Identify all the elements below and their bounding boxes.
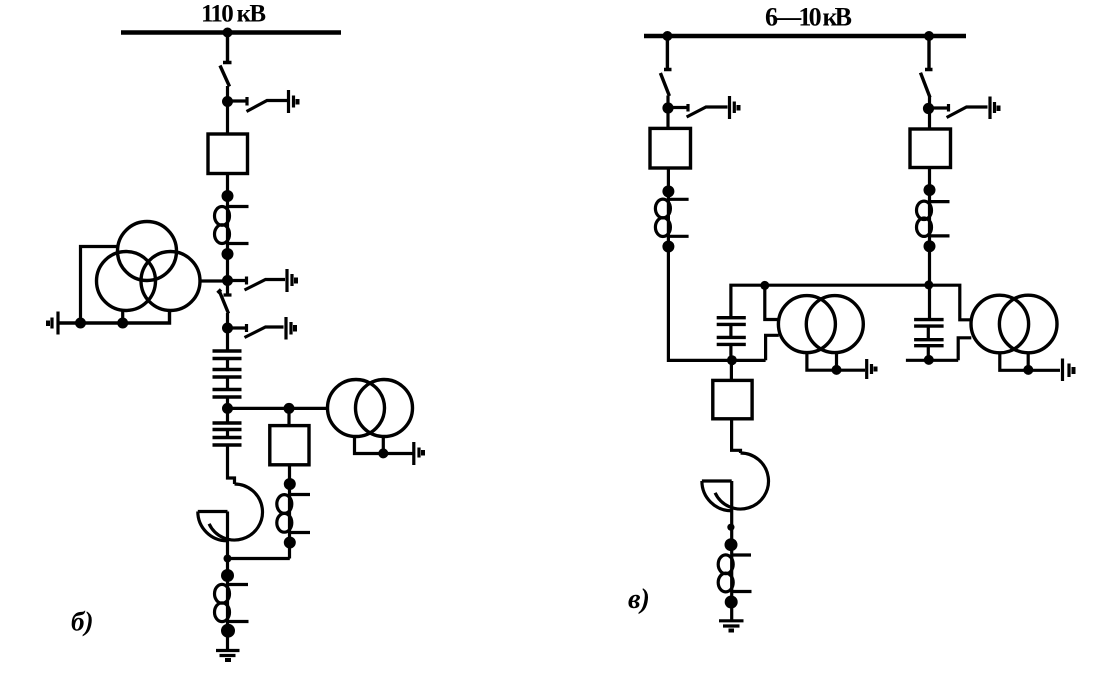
current transformer TA6 taps — [731, 555, 751, 592]
ground main earth — [216, 651, 240, 656]
wire TV2 bottom left lead — [355, 437, 413, 454]
current transformer TA3 winding 2 — [215, 603, 230, 622]
ground main earth small bar — [225, 658, 231, 662]
coupling filter box Z2 — [713, 380, 752, 418]
disconnector QS4 blade — [921, 73, 931, 98]
node bottom of CT TA1 — [222, 248, 234, 260]
earthing switch QSG5 blade — [947, 107, 988, 118]
node above CT TA3 — [221, 569, 234, 582]
earthing switch QSG1 blade — [247, 101, 288, 112]
node TV1 ground junction 1 — [75, 318, 86, 329]
ground QSG2 small bar — [294, 278, 298, 284]
capacitor C4 connectors — [927, 326, 930, 360]
node TV3 ground junction — [832, 365, 842, 375]
voltage transformer TV1 right winding — [141, 252, 200, 311]
node top of CT TA2 — [284, 478, 296, 490]
wire capacitor tap to branch — [228, 407, 328, 410]
ground QSG2 — [287, 269, 292, 292]
wire C4 bottom stub — [906, 359, 958, 362]
disconnector QS1 blade — [220, 66, 230, 87]
node bridge junction TV3 — [760, 281, 769, 290]
wire bus to disconnector QS3 — [664, 36, 672, 70]
line trap L2 main arc — [715, 453, 768, 509]
circuit breaker Q2 — [650, 128, 691, 168]
capacitor C4 plates — [914, 320, 944, 346]
current transformer TA5 winding — [917, 201, 932, 219]
coupling capacitor C2 lower stack plates — [213, 423, 242, 445]
busbar 6-10 kV — [644, 34, 966, 38]
wire Q2 through CT TA4 down to bottom corner — [668, 168, 765, 360]
circuit breaker Q1 — [208, 134, 248, 174]
node corner junction — [224, 555, 232, 563]
capacitor C3 plates — [717, 318, 746, 345]
wire line trap down to ground chain — [226, 512, 229, 651]
node above CT TA6 — [725, 538, 738, 551]
line trap L2 bar — [702, 479, 732, 482]
node junction with earthing switch QSG5 — [923, 103, 934, 114]
svg-text:110 кВ: 110 кВ — [201, 1, 266, 28]
current transformer TA2 winding — [277, 495, 292, 514]
node top of CT TA4 — [662, 185, 674, 197]
node bottom of CT TA6 — [725, 596, 738, 609]
node branch tap — [284, 403, 295, 414]
ground earth right scheme — [719, 621, 744, 626]
current transformer TA6 winding — [718, 555, 733, 574]
node C3 bottom junction — [727, 355, 737, 365]
ground QSG1 — [289, 90, 294, 113]
current transformer TA2 winding 2 — [277, 513, 292, 532]
wire QS3 to breaker Q2 — [666, 96, 669, 129]
line trap L1 bar — [198, 510, 228, 513]
wire QS4 to breaker Q3 — [928, 97, 931, 129]
wire Q3 through CT TA5 down to capacitor C4 — [928, 168, 931, 320]
earthing switch QSG1 wire — [228, 97, 248, 106]
wire QS1 to breaker Q1 — [226, 86, 229, 134]
busbar 110 kV — [121, 30, 341, 34]
ground QSG5 small bar — [997, 106, 1001, 112]
node: feeder tap on 110 kV bus — [223, 28, 233, 38]
node: right feeder tap on 6-10 kV bus — [924, 31, 934, 41]
coupling capacitor C2 connector — [226, 430, 229, 438]
coupling filter box Z1 — [270, 426, 309, 465]
current transformer TA6 winding 2 — [718, 573, 733, 592]
earthing switch QSG2 wire — [228, 277, 247, 285]
wire Q1 to disconnector QS2 — [224, 174, 232, 296]
node capacitor tap — [222, 403, 233, 414]
ground TV3 small bar — [874, 367, 878, 372]
node C4 bottom junction — [924, 355, 934, 365]
wire TV1 to node — [200, 279, 228, 282]
node junction with voltage transformer TV1 — [222, 275, 233, 286]
voltage transformer TV3 left winding — [778, 296, 835, 353]
node top of CT TA1 — [222, 190, 234, 202]
voltage transformer TV4 right winding — [999, 295, 1057, 353]
voltage transformer TV2 right winding — [356, 380, 413, 437]
wire TV3 bottom lead — [807, 353, 865, 371]
voltage transformer TV2 left winding — [328, 380, 385, 437]
node junction with earthing switch QSG4 — [662, 102, 673, 113]
wire C3 node to filter box — [730, 360, 733, 380]
ground QSG4 — [730, 96, 735, 119]
node bottom of CT TA4 — [662, 241, 674, 253]
ground TV1 small bar — [46, 321, 50, 327]
ground QSG5 — [990, 97, 995, 120]
disconnector QS3 blade — [660, 73, 669, 96]
current transformer TA3 winding — [215, 584, 230, 603]
ground TV3 — [867, 359, 872, 379]
earthing switch QSG2 blade — [245, 280, 286, 291]
wire TV4 bottom lead — [1000, 353, 1060, 371]
ground earth right scheme small bar — [729, 629, 735, 633]
wire TV1 bottom lead — [58, 311, 170, 324]
svg-text:б): б) — [71, 607, 93, 637]
wire TV3 right winding stub — [835, 353, 838, 370]
wire branch to filter box — [287, 408, 290, 425]
ground TV4 small bar — [1072, 367, 1076, 374]
line trap L1 main arc — [209, 484, 262, 540]
wire TV1 primary top lead — [81, 247, 119, 324]
wire filter box down — [288, 465, 291, 559]
node top of CT TA5 — [924, 184, 936, 196]
ground QSG3 small bar — [293, 325, 297, 332]
wire TV2 right winding stub — [382, 437, 385, 454]
wire bus to disconnector QS4 — [925, 36, 933, 70]
voltage transformer TV4 left winding — [971, 295, 1029, 353]
voltage transformer TV1 top winding — [118, 222, 177, 281]
disconnector QS2 blade — [218, 290, 229, 314]
ground TV4 — [1063, 359, 1070, 382]
wire C2 to line trap — [228, 445, 235, 484]
node bridge junction right feeder — [924, 280, 933, 289]
wire bus to disconnector QS1 — [223, 33, 232, 63]
current transformer TA1 winding 2 — [215, 225, 230, 244]
earthing switch QSG4 wire — [668, 104, 688, 112]
wire TV3 upper lead — [765, 285, 779, 319]
current transformer TA1 winding — [215, 207, 230, 226]
svg-text:в): в) — [628, 584, 650, 615]
wire bottom link — [228, 557, 290, 560]
wire TV1 left winding stub — [121, 311, 124, 324]
line trap L2 quarter arc — [702, 481, 732, 511]
wire TV4 right winding stub — [1027, 353, 1030, 371]
capacitor C3 connectors — [729, 324, 732, 360]
ground TV2 — [414, 442, 419, 465]
node TV2 ground junction — [378, 448, 388, 458]
ground TV1 — [52, 312, 58, 335]
node bottom of CT TA5 — [924, 240, 936, 252]
wire TV3 lower lead — [766, 335, 779, 360]
earthing switch QSG4 blade — [687, 107, 728, 117]
line trap L1 quarter arc — [198, 512, 227, 541]
node A junction with earthing switch — [222, 96, 233, 107]
current transformer TA4 taps — [668, 199, 688, 236]
current transformer TA4 winding — [655, 199, 670, 218]
node small junction below trap — [727, 524, 734, 531]
ground TV2 small bar — [421, 450, 425, 456]
node TV1 ground junction 2 — [117, 318, 128, 329]
node junction with earthing switch QSG3 — [222, 323, 233, 334]
node bottom of CT TA2 — [284, 537, 296, 549]
ground QSG3 — [286, 317, 291, 340]
coupling capacitor C1 upper stack plates — [213, 351, 242, 397]
current transformer TA1 taps — [228, 207, 249, 244]
circuit breaker Q3 — [910, 129, 951, 168]
wire bridge — [731, 285, 972, 320]
wire line trap down to ground chain — [730, 481, 733, 621]
voltage transformer TV3 right winding — [806, 296, 863, 353]
current transformer TA5 taps — [930, 202, 950, 236]
node TV4 ground junction — [1023, 365, 1033, 375]
current transformer TA3 taps — [228, 585, 249, 622]
ground QSG4 small bar — [737, 105, 741, 111]
current transformer TA4 winding 2 — [655, 218, 670, 237]
node: left feeder tap on 6-10 kV bus — [662, 31, 672, 41]
earthing switch QSG3 blade — [245, 327, 284, 338]
node bottom of CT TA3 — [221, 624, 235, 638]
coupling capacitor C1 connectors — [226, 359, 229, 424]
wire TV4 lower lead — [958, 338, 971, 361]
current transformer TA5 winding 2 — [917, 218, 932, 236]
earthing switch QSG5 wire — [929, 104, 949, 112]
current transformer TA2 taps — [290, 495, 310, 533]
ground QSG1 small bar — [296, 99, 300, 105]
svg-text:6—10 кВ: 6—10 кВ — [765, 3, 852, 32]
voltage transformer TV1 left winding — [97, 252, 156, 311]
wire QS2 down — [226, 313, 229, 351]
earthing switch QSG3 wire — [228, 324, 247, 332]
wire filter box to line trap — [732, 419, 741, 453]
